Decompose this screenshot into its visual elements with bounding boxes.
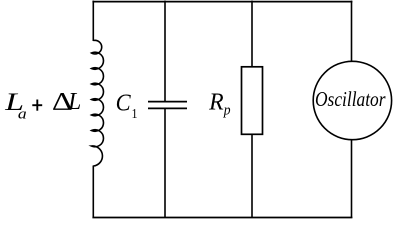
label L_a + dL : plus sign: [32, 100, 42, 111]
wire: inductor branch, top rail to coil: [92, 1, 94, 41]
svg-text:p: p: [223, 103, 231, 118]
capacitor C1 branch top wire: [164, 1, 166, 102]
capacitor C1 branch bottom wire: [164, 108, 166, 218]
svg-text:Oscillator: Oscillator: [315, 87, 386, 111]
svg-text:L: L: [67, 89, 81, 116]
svg-text:a: a: [18, 104, 27, 122]
oscillator branch bottom wire: [351, 140, 353, 219]
resistor Rp branch top wire: [251, 1, 253, 67]
svg-text:R: R: [208, 89, 224, 115]
resistor Rp branch bottom wire: [251, 134, 253, 218]
oscillator circle: [313, 61, 391, 139]
capacitor C1 bottom plate: [148, 107, 187, 109]
inductor La+dL coil: [92, 40, 104, 166]
svg-text:1: 1: [131, 106, 137, 121]
bottom rail wire: [92, 217, 352, 219]
wire: inductor branch, coil to bottom rail: [92, 166, 94, 219]
oscillator branch top wire: [351, 1, 353, 62]
capacitor C1 top plate: [148, 101, 187, 103]
svg-text:C: C: [116, 90, 131, 117]
top rail wire: [92, 1, 352, 3]
resistor Rp box: [242, 67, 263, 135]
